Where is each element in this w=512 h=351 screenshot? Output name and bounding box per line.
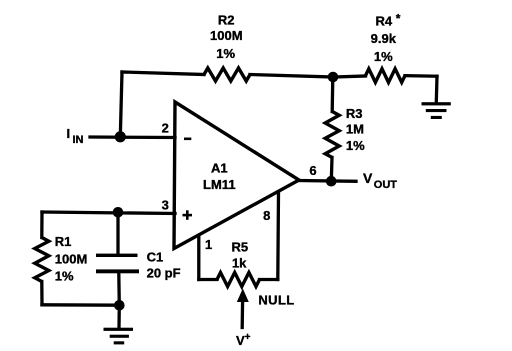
svg-text:OUT: OUT bbox=[374, 179, 398, 191]
svg-text:R1: R1 bbox=[55, 234, 72, 249]
svg-text:6: 6 bbox=[309, 163, 316, 178]
svg-text:IN: IN bbox=[73, 134, 84, 146]
svg-text:R2: R2 bbox=[218, 12, 235, 27]
svg-text:NULL: NULL bbox=[258, 292, 294, 307]
svg-text:8: 8 bbox=[263, 208, 270, 223]
svg-text:20 pF: 20 pF bbox=[147, 266, 181, 281]
svg-text:R3: R3 bbox=[346, 106, 363, 121]
svg-text:9.9k: 9.9k bbox=[371, 31, 397, 46]
svg-text:100M: 100M bbox=[210, 28, 243, 43]
svg-text:C1: C1 bbox=[147, 250, 164, 265]
svg-text:3: 3 bbox=[162, 197, 169, 212]
svg-text:1M: 1M bbox=[346, 121, 364, 136]
svg-text:2: 2 bbox=[162, 121, 169, 136]
svg-text:R5: R5 bbox=[231, 240, 248, 255]
svg-text:1%: 1% bbox=[374, 49, 393, 64]
svg-text:1%: 1% bbox=[216, 46, 235, 61]
svg-text:LM11: LM11 bbox=[203, 177, 236, 192]
svg-text:1%: 1% bbox=[55, 269, 74, 284]
svg-text:1k: 1k bbox=[232, 256, 247, 271]
svg-text:1: 1 bbox=[205, 237, 212, 252]
svg-text:A1: A1 bbox=[211, 160, 228, 175]
svg-text:I: I bbox=[67, 126, 71, 141]
svg-text:1%: 1% bbox=[346, 138, 365, 153]
svg-text:V: V bbox=[363, 170, 373, 186]
svg-text:100M: 100M bbox=[55, 252, 88, 267]
